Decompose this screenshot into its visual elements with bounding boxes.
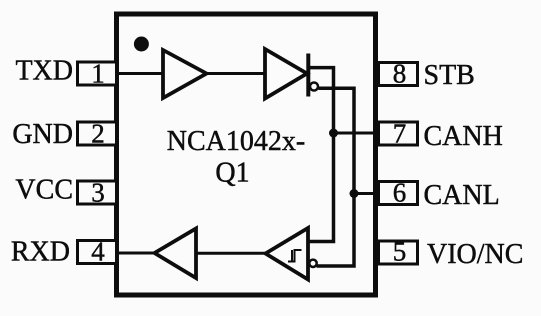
receiver comparator with hysteresis [266, 228, 309, 280]
svg-text:6: 6 [393, 178, 407, 208]
wire RXD output [118, 252, 156, 255]
wire driver inverting output to CANL net [317, 88, 355, 266]
svg-text:STB: STB [424, 60, 475, 91]
driver output bar [306, 54, 310, 97]
svg-text:CANH: CANH [424, 121, 503, 152]
svg-text:RXD: RXD [11, 237, 70, 268]
svg-text:NCA1042x-: NCA1042x- [167, 126, 305, 157]
svg-text:VIO/NC: VIO/NC [427, 239, 523, 270]
wire CANL to pin 6 [354, 192, 377, 195]
svg-text:CANL: CANL [424, 180, 500, 211]
svg-text:3: 3 [91, 178, 105, 208]
node CANH junction [329, 129, 338, 138]
svg-text:4: 4 [91, 237, 105, 267]
svg-text:5: 5 [393, 237, 407, 267]
pin 7 box [379, 122, 418, 145]
pin 4 box [78, 241, 117, 264]
bubble receiver inverting input [309, 260, 316, 267]
wire CANH to pin 7 [334, 132, 378, 135]
hysteresis symbol [288, 250, 302, 262]
pin 6 box [379, 182, 418, 205]
svg-text:GND: GND [12, 119, 73, 150]
buffer A1 (TXD driver stage 1) [163, 50, 207, 98]
node CANL junction [350, 189, 359, 198]
svg-text:Q1: Q1 [215, 158, 249, 189]
wire A1 to A2 [207, 72, 266, 75]
wire driver non-inverting output to CANH net [310, 68, 334, 242]
bubble driver inverting output [310, 83, 318, 91]
svg-text:1: 1 [91, 59, 105, 89]
pin 1 marker dot [134, 37, 149, 52]
svg-text:TXD: TXD [15, 56, 73, 87]
svg-text:8: 8 [393, 59, 407, 89]
pin 5 box [379, 241, 418, 264]
buffer A2 (TXD driver stage 2) [265, 49, 307, 99]
svg-text:VCC: VCC [15, 175, 73, 206]
pin 2 box [78, 122, 117, 145]
wire TXD input [118, 72, 163, 75]
pin 8 box [379, 63, 418, 86]
wire receiver to RXD buffer [196, 252, 266, 255]
buffer A3 (RXD output buffer) [155, 229, 197, 279]
pin 1 box [78, 62, 117, 85]
IC U1 NCA1042x-Q1 package body [117, 14, 376, 295]
svg-text:2: 2 [91, 119, 105, 149]
pin 3 box [78, 181, 117, 204]
svg-text:7: 7 [393, 119, 407, 149]
